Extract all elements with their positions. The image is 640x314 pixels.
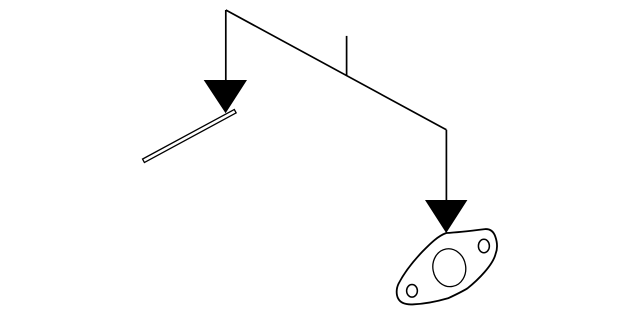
wire: short vertical tick meeting the diagonal line — [346, 36, 348, 76]
wire: leader line from top corner down to arrow 1 — [225, 10, 227, 81]
arrow 1 (points to dipstick tube) — [204, 80, 247, 113]
arrow 2 (points to gasket) — [425, 200, 467, 233]
gasket bolt hole lower-left — [407, 285, 418, 298]
gasket outline — [397, 229, 497, 304]
gasket center hole — [430, 246, 469, 289]
wire: vertical leader line from right corner down to arrow 2 — [445, 130, 447, 201]
wire: diagonal leader line from top corner to right corner — [226, 10, 447, 130]
gasket bolt hole upper-right — [478, 239, 489, 252]
dipstick tube (oil level indicator tube) — [143, 109, 237, 162]
